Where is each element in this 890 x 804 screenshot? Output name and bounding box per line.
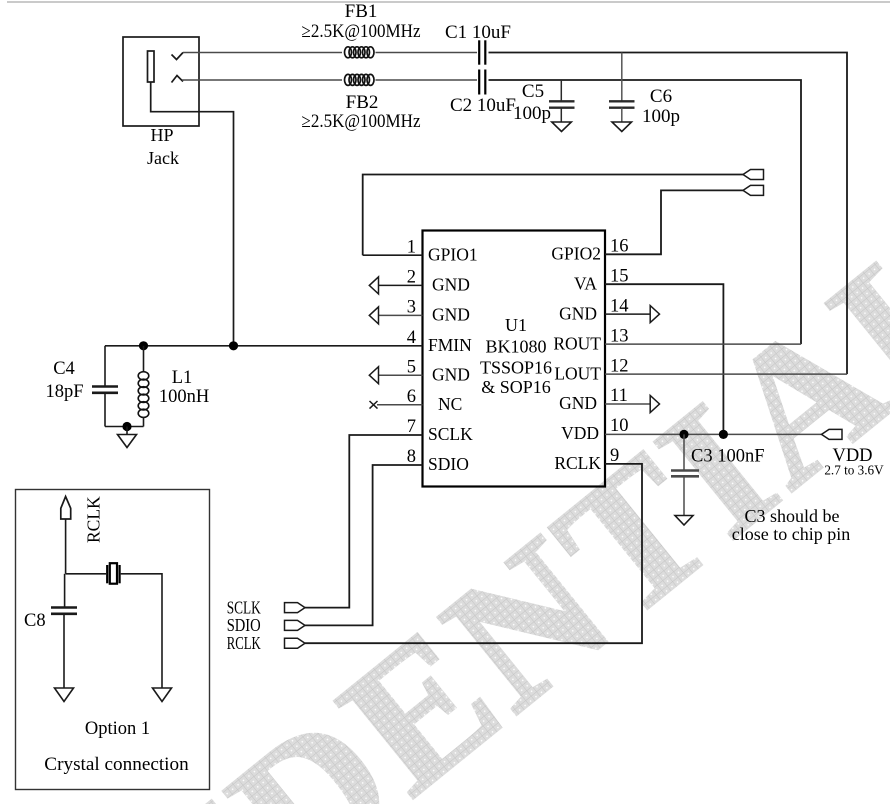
svg-text:3: 3 — [407, 297, 416, 317]
junction node ground rail — [122, 422, 131, 431]
svg-text:12: 12 — [610, 356, 629, 376]
watermark CONFIDENTIAL — [0, 188, 890, 804]
pin 8 stub + SDIO net — [305, 465, 423, 625]
svg-text:GND: GND — [432, 275, 470, 295]
pin 2 stub — [379, 284, 423, 286]
pin 4 FMIN net wire — [105, 345, 423, 347]
off-page arrow pin 14 GND — [650, 306, 659, 323]
inductor L1 — [138, 372, 149, 418]
U1 right pin labels — [551, 244, 601, 474]
svg-text:100p: 100p — [642, 106, 680, 127]
Option 1 box — [16, 490, 210, 790]
wire FB1 to C1 — [376, 52, 478, 54]
wire FB2 to C2 — [376, 79, 478, 81]
ground for C5 — [552, 122, 572, 132]
connector J1 HP Jack body — [123, 37, 199, 126]
svg-text:close to chip pin: close to chip pin — [732, 524, 850, 544]
svg-text:C6: C6 — [650, 86, 672, 107]
svg-text:GND: GND — [432, 364, 470, 384]
svg-text:C4: C4 — [53, 359, 75, 379]
svg-text:FMIN: FMIN — [428, 335, 472, 355]
IC U1 BK1080 body — [423, 231, 606, 487]
svg-text:GND: GND — [559, 393, 597, 413]
capacitor C3 — [671, 434, 699, 515]
crystal X1 — [107, 563, 119, 584]
ferrite bead FB1 — [345, 47, 375, 58]
wire crystal to right leg — [121, 574, 162, 688]
C5 labels — [513, 81, 551, 124]
pin 7 stub + SCLK net — [305, 435, 423, 608]
U1 left pin labels — [428, 244, 478, 474]
C4/L1 bottom rail — [105, 426, 144, 428]
HP jack tip contact — [172, 53, 184, 60]
svg-text:GND: GND — [559, 303, 597, 323]
ground for C3 — [675, 516, 693, 526]
svg-text:NC: NC — [438, 394, 462, 414]
FB2 labels — [302, 92, 421, 132]
svg-text:RCLK: RCLK — [227, 633, 261, 653]
svg-text:& SOP16: & SOP16 — [481, 377, 551, 397]
svg-text:≥2.5K@100MHz: ≥2.5K@100MHz — [302, 111, 421, 132]
off-page arrow pin 5 GND — [369, 367, 378, 384]
pin 12 LOUT stub — [605, 373, 847, 375]
svg-text:C8: C8 — [24, 611, 46, 631]
pin 14 stub — [605, 313, 650, 315]
U1 part labels — [480, 315, 552, 397]
svg-text:Jack: Jack — [147, 148, 179, 168]
no-connect cross pin 6 — [370, 401, 378, 409]
svg-text:VDD: VDD — [561, 423, 599, 443]
ground left leg — [55, 688, 74, 702]
pin 16 stub + wire to top connector 2 — [605, 190, 743, 254]
svg-text:C3 100nF: C3 100nF — [691, 447, 765, 467]
pin 6 stub — [377, 404, 423, 406]
capacitor C8 — [51, 608, 77, 689]
wire junction to crystal — [66, 573, 106, 575]
svg-text:FB1: FB1 — [345, 1, 378, 22]
capacitor C4 — [92, 387, 118, 427]
svg-text:11: 11 — [610, 386, 628, 406]
svg-text:GPIO2: GPIO2 — [551, 244, 601, 264]
svg-text:Option 1: Option 1 — [85, 719, 150, 739]
pin 9 RCLK stub + net wire — [305, 464, 642, 643]
wire junction down to C8 — [64, 574, 66, 607]
off-page arrow pin 2 GND — [369, 277, 378, 294]
off-page arrow pin 11 GND — [650, 396, 659, 413]
svg-text:C5: C5 — [522, 81, 544, 102]
svg-text:100nH: 100nH — [159, 387, 209, 407]
L1 labels — [159, 368, 209, 407]
serial net labels — [227, 597, 261, 653]
svg-text:C1 10uF: C1 10uF — [445, 22, 511, 43]
FB1 labels — [302, 1, 421, 42]
border top line — [7, 1, 890, 3]
svg-text:RCLK: RCLK — [554, 453, 601, 473]
connector flag GPIO1 — [743, 170, 764, 180]
svg-text:C2 10uF: C2 10uF — [450, 95, 516, 116]
inductor L1 wire top — [143, 346, 145, 372]
junction node FMIN/L1 — [139, 341, 148, 350]
svg-text:FB2: FB2 — [346, 92, 379, 113]
connector flag SDIO — [285, 620, 306, 630]
connector flag VDD — [822, 429, 843, 439]
svg-text:10: 10 — [610, 416, 629, 436]
svg-text:18pF: 18pF — [45, 382, 83, 402]
pin 11 stub — [605, 403, 650, 405]
connector flag RCLK — [285, 638, 306, 648]
svg-text:13: 13 — [610, 326, 629, 346]
svg-text:5: 5 — [407, 357, 416, 377]
svg-text:U1: U1 — [505, 315, 527, 335]
wire C2 to ROUT corner — [489, 80, 802, 344]
C3 note — [732, 506, 850, 544]
junction node VDD/VA — [719, 430, 728, 439]
pin 10 VDD net wire — [605, 433, 822, 435]
pin 5 stub — [379, 374, 423, 376]
capacitor C4 wire from FMIN — [104, 346, 106, 386]
pin 3 stub — [379, 314, 423, 316]
svg-text:100p: 100p — [513, 103, 551, 124]
connector flag GPIO2 — [743, 185, 764, 195]
capacitor C2 — [479, 70, 485, 95]
Option labels — [44, 719, 189, 775]
HP jack label — [147, 125, 179, 168]
svg-text:GND: GND — [432, 304, 470, 324]
wire GPIO1 to top connector — [363, 175, 743, 256]
svg-text:LOUT: LOUT — [554, 363, 601, 383]
svg-text:HP: HP — [150, 125, 173, 145]
svg-text:SCLK: SCLK — [428, 424, 473, 444]
svg-text:2.7 to 3.6V: 2.7 to 3.6V — [824, 463, 884, 478]
svg-text:2: 2 — [407, 267, 416, 287]
capacitor C6 — [609, 53, 635, 123]
C4 labels — [45, 359, 83, 402]
svg-text:VA: VA — [574, 273, 597, 293]
junction node FMIN/jack — [229, 341, 238, 350]
RCLK up flag connector — [61, 497, 71, 520]
svg-text:L1: L1 — [172, 368, 193, 388]
svg-text:TSSOP16: TSSOP16 — [480, 358, 552, 378]
off-page arrow pin 3 GND — [369, 307, 378, 324]
pin 15 VA stub + wire down to VDD net — [605, 284, 723, 434]
svg-text:ROUT: ROUT — [553, 333, 601, 353]
crystal net: vertical from flag to junction — [65, 519, 67, 574]
svg-text:RCLK: RCLK — [84, 496, 104, 543]
capacitor C5 — [549, 80, 575, 122]
pin 1 stub — [363, 254, 423, 256]
ferrite bead FB2 — [345, 74, 375, 85]
svg-text:≥2.5K@100MHz: ≥2.5K@100MHz — [302, 21, 421, 42]
svg-text:SDIO: SDIO — [428, 454, 469, 474]
svg-text:C3 should be: C3 should be — [744, 506, 839, 526]
HP jack ring contact — [172, 76, 184, 83]
ground right leg — [153, 688, 172, 702]
svg-text:GPIO1: GPIO1 — [428, 244, 478, 264]
wire jack sleeve to node on FMIN net — [151, 82, 234, 346]
C6 labels — [642, 86, 680, 127]
ground stub C4/L1 — [126, 427, 128, 435]
U1 left pin numbers — [407, 237, 416, 467]
connector flag SCLK — [285, 603, 306, 613]
wire tip to FB1 — [183, 52, 342, 54]
capacitor C1 — [479, 40, 485, 64]
junction node VDD/C3 — [679, 430, 688, 439]
ground for C4/L1 — [118, 435, 137, 448]
inductor L1 wire bottom — [143, 417, 145, 427]
U1 right pin numbers — [610, 237, 629, 467]
svg-text:BK1080: BK1080 — [485, 337, 546, 357]
svg-text:Crystal connection: Crystal connection — [44, 754, 189, 775]
ground for C6 — [612, 122, 632, 132]
wire C1 to LOUT corner — [489, 53, 848, 375]
wire ring to FB2 — [182, 79, 342, 81]
pin 13 ROUT stub — [605, 343, 801, 345]
